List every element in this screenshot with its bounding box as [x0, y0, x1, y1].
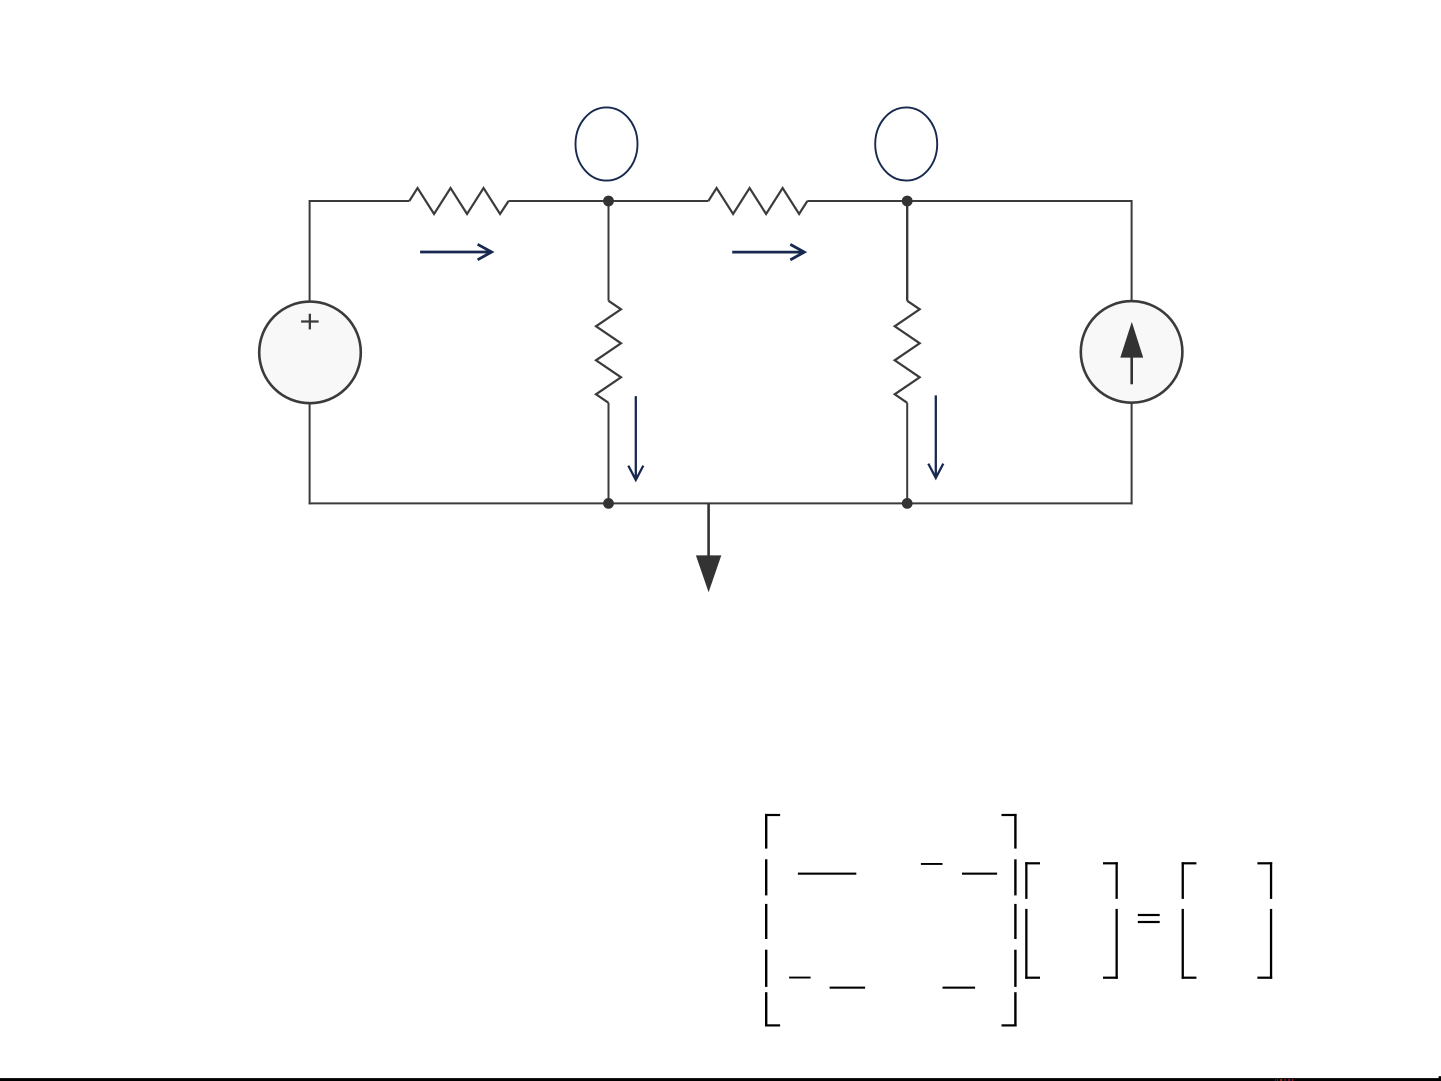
- junction node V1: [603, 196, 614, 207]
- wire right branch bottom: [1131, 403, 1133, 505]
- vector V left bracket: [1025, 862, 1040, 979]
- wire right branch top: [1131, 200, 1133, 301]
- resistor R1: [409, 188, 508, 214]
- fraction bar row1 col2: [962, 873, 997, 875]
- fraction bar row1 col1: [798, 873, 856, 875]
- resistor R4: [895, 301, 920, 403]
- wire R3 to bottom wire: [608, 403, 610, 504]
- fraction bar row2 col1: [830, 987, 866, 989]
- wire R1 to node V1: [509, 200, 709, 202]
- wire R2 to top-right corner: [807, 200, 1131, 202]
- progress bar colored specks: [1275, 1079, 1293, 1080]
- wire node V1 down to R3: [608, 201, 610, 301]
- equals sign: [1138, 914, 1160, 923]
- vector RHS left bracket: [1182, 862, 1197, 979]
- resistor R3: [596, 301, 621, 403]
- wire left branch top: [309, 200, 311, 302]
- vector RHS right bracket: [1257, 862, 1272, 979]
- junction bottom left: [603, 498, 614, 509]
- plus sign: [301, 314, 319, 330]
- ground: [696, 503, 721, 592]
- wire R4 to bottom wire: [906, 403, 908, 504]
- wire top-left segment: [310, 200, 410, 202]
- resistor R2: [708, 188, 807, 214]
- current source I1: [1081, 301, 1183, 403]
- junction node V2: [902, 196, 913, 207]
- current arrow i4 (vertical): [928, 395, 943, 478]
- wire node V2 down to R4: [906, 201, 908, 301]
- minus sign row1 col2: [921, 863, 943, 865]
- bottom wire: [309, 502, 1133, 504]
- junction bottom right: [902, 498, 913, 509]
- node label circle V1: [576, 107, 638, 180]
- minus sign row2 col1: [789, 977, 811, 979]
- current source arrow: [1120, 322, 1143, 384]
- fraction bar row2 col2: [943, 987, 976, 989]
- current arrow i3 (vertical): [628, 396, 643, 480]
- current arrow i2 (horizontal): [732, 244, 804, 260]
- wire left branch bottom: [309, 403, 311, 504]
- node label circle V2: [875, 107, 937, 180]
- matrix right bracket: [1002, 814, 1017, 1027]
- matrix left bracket: [765, 814, 780, 1027]
- bottom progress bar: [0, 1078, 1441, 1081]
- vector V right bracket: [1103, 862, 1118, 979]
- current arrow i1 (horizontal): [420, 244, 492, 259]
- voltage source V1: [259, 302, 361, 404]
